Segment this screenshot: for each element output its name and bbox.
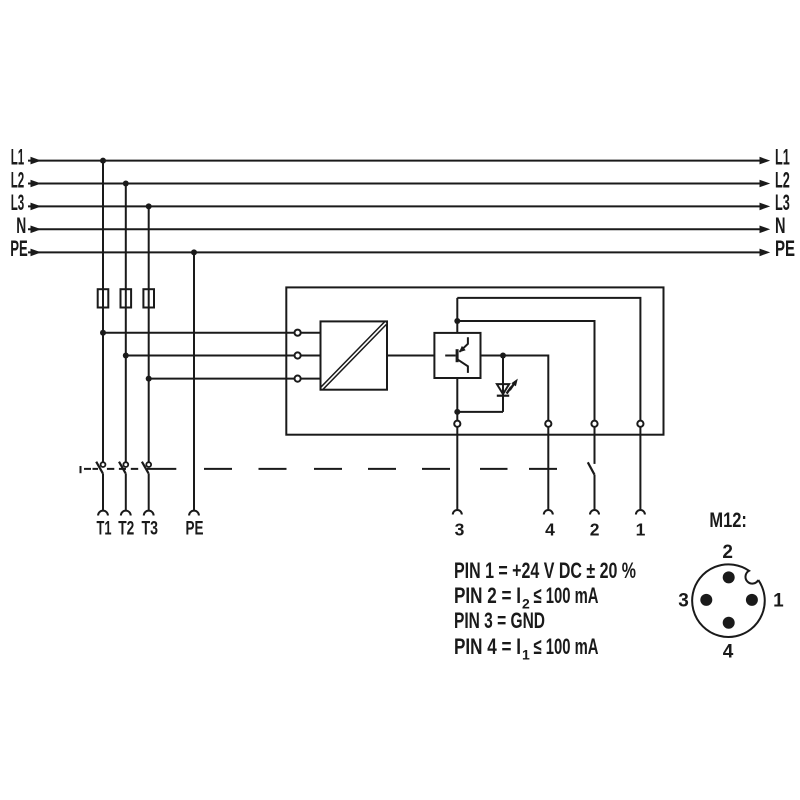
svg-text:PE: PE xyxy=(186,517,204,539)
svg-text:≤ 100 mA: ≤ 100 mA xyxy=(534,583,599,608)
svg-text:T1: T1 xyxy=(97,517,112,539)
svg-text:1: 1 xyxy=(636,519,646,539)
svg-text:L2: L2 xyxy=(11,167,25,192)
svg-text:N: N xyxy=(16,213,26,238)
svg-text:3: 3 xyxy=(678,591,689,612)
svg-text:T3: T3 xyxy=(141,517,158,539)
svg-text:PIN 1 = +24 V DC ± 20 %: PIN 1 = +24 V DC ± 20 % xyxy=(454,558,636,583)
svg-text:2: 2 xyxy=(722,542,733,563)
svg-text:L3: L3 xyxy=(775,190,790,215)
svg-text:3: 3 xyxy=(455,519,465,539)
svg-text:4: 4 xyxy=(723,641,734,662)
svg-text:L2: L2 xyxy=(775,167,790,192)
svg-text:M12:: M12: xyxy=(709,509,747,532)
svg-text:L1: L1 xyxy=(11,144,25,169)
svg-text:PIN 3 = GND: PIN 3 = GND xyxy=(454,608,545,633)
svg-text:1: 1 xyxy=(522,646,530,662)
svg-text:1: 1 xyxy=(773,591,784,612)
svg-text:T2: T2 xyxy=(118,517,134,539)
svg-text:PE: PE xyxy=(10,236,28,261)
svg-text:PIN 2 = I: PIN 2 = I xyxy=(454,583,521,608)
svg-text:L1: L1 xyxy=(775,144,790,169)
svg-text:L3: L3 xyxy=(11,190,25,215)
svg-text:N: N xyxy=(775,213,786,238)
svg-text:PIN 4 = I: PIN 4 = I xyxy=(454,634,521,659)
svg-text:2: 2 xyxy=(590,519,600,539)
svg-text:PE: PE xyxy=(775,236,795,261)
svg-text:4: 4 xyxy=(545,519,555,539)
svg-text:≤ 100 mA: ≤ 100 mA xyxy=(534,634,599,659)
